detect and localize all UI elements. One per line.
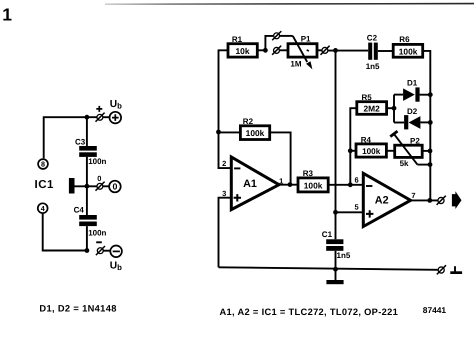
node +Ub junction xyxy=(85,115,90,120)
capacitor C3 xyxy=(79,146,97,151)
wire supply center vertical xyxy=(86,117,88,146)
svg-text:R4: R4 xyxy=(361,136,372,145)
svg-text:100n: 100n xyxy=(88,229,106,238)
resistor R6 xyxy=(393,44,423,57)
svg-text:IC1: IC1 xyxy=(35,179,55,191)
wire to 0 terminal xyxy=(103,185,109,187)
wire R4 to P2 xyxy=(387,150,395,152)
node A2 output rail xyxy=(427,198,432,203)
resistor R3 xyxy=(298,178,328,192)
svg-text:0: 0 xyxy=(112,182,117,192)
svg-text:C2: C2 xyxy=(367,34,378,43)
potentiometer P1 xyxy=(288,44,317,57)
output arrow xyxy=(452,191,462,209)
svg-text:4: 4 xyxy=(41,204,45,213)
terminal +Ub xyxy=(110,112,122,124)
svg-text:R3: R3 xyxy=(303,169,314,178)
terminal 0 xyxy=(109,181,121,193)
wire P2 wiper to rail xyxy=(417,164,430,166)
wire bypass to P1 wiper xyxy=(265,36,273,50)
wire R1 to node xyxy=(257,49,265,51)
wire R2 feedback to output xyxy=(270,132,291,184)
svg-text:A2: A2 xyxy=(375,194,389,206)
node R5R4 rail to pin6 xyxy=(348,182,353,187)
wire connector to wiper line xyxy=(280,35,293,37)
wire P1 to connector xyxy=(317,49,322,51)
node C2 branch xyxy=(333,48,338,53)
node D1 D2 branch xyxy=(392,106,397,111)
node after R1 xyxy=(263,48,268,53)
wire P2 right to rail xyxy=(422,150,430,152)
resistor R5 xyxy=(357,102,387,115)
wire diode bracket xyxy=(393,95,395,123)
capacitor C1 xyxy=(326,239,343,244)
wire bottom rail xyxy=(219,267,438,270)
svg-text:0: 0 xyxy=(97,174,101,183)
wire A2 output xyxy=(410,199,438,201)
diode D1 xyxy=(394,94,403,96)
svg-text:R5: R5 xyxy=(362,93,373,102)
svg-text:D1: D1 xyxy=(407,78,418,87)
connector pin upper xyxy=(274,33,280,39)
wire R5 left rail xyxy=(350,108,357,185)
svg-text:1n5: 1n5 xyxy=(337,251,351,260)
wire C2 node down to pin5 and C1 xyxy=(335,50,337,239)
svg-text:D1, D2 = 1N4148: D1, D2 = 1N4148 xyxy=(39,304,116,314)
svg-text:C1: C1 xyxy=(322,230,333,239)
wire to -Ub terminal xyxy=(104,250,111,252)
svg-text:R1: R1 xyxy=(232,35,243,44)
node C1 bottom rail xyxy=(333,267,338,272)
wire IC1 pin4 to -Ub rail xyxy=(43,214,87,251)
wire R5 right xyxy=(387,107,394,109)
op-amp A1 xyxy=(231,157,279,210)
ground bar left xyxy=(69,178,75,194)
ground right xyxy=(454,266,456,271)
svg-text:C4: C4 xyxy=(74,205,85,214)
svg-text:3: 3 xyxy=(222,189,226,198)
node R2 left xyxy=(216,130,221,135)
wire left rail xyxy=(219,50,231,168)
svg-text:C3: C3 xyxy=(75,137,86,146)
connector pin 0 xyxy=(97,183,103,189)
node -Ub junction xyxy=(85,248,90,253)
connector pin +Ub xyxy=(97,114,103,120)
svg-text:87441: 87441 xyxy=(423,305,447,315)
connector pin -Ub xyxy=(97,248,103,254)
wire R3 to A2 pin6 xyxy=(328,184,363,186)
svg-text:100n: 100n xyxy=(88,157,106,166)
svg-text:A1: A1 xyxy=(243,178,257,190)
connector pin before P1 xyxy=(274,47,280,53)
node R4 left xyxy=(348,148,353,153)
svg-text:2: 2 xyxy=(222,159,226,168)
polarity - above connector xyxy=(96,241,102,243)
svg-text:5k: 5k xyxy=(400,159,409,168)
wire C2 to R6 xyxy=(378,50,393,52)
wire A1 output xyxy=(279,184,299,186)
wire C1 to ground xyxy=(335,251,337,280)
svg-text:100k: 100k xyxy=(362,147,381,156)
svg-text:7: 7 xyxy=(411,191,415,200)
svg-text:R6: R6 xyxy=(399,35,410,44)
svg-text:100k: 100k xyxy=(399,46,418,56)
svg-text:1: 1 xyxy=(2,4,12,24)
svg-text:R2: R2 xyxy=(243,117,254,126)
svg-text:5: 5 xyxy=(355,203,359,212)
node 0 junction xyxy=(85,184,90,189)
wire ground bar to 0 connector xyxy=(75,185,97,187)
capacitor C4 xyxy=(79,215,97,220)
svg-text:Ub: Ub xyxy=(110,99,122,111)
resistor R4 xyxy=(356,144,386,157)
svg-text:1n5: 1n5 xyxy=(366,62,380,71)
wire R2 left xyxy=(219,131,241,133)
terminal -Ub xyxy=(110,246,122,258)
polarity + above connector xyxy=(96,106,102,112)
svg-text:10k: 10k xyxy=(236,46,250,56)
pin 4 of IC1 xyxy=(38,203,48,213)
node A2 pin5 xyxy=(333,210,338,215)
svg-text:100k: 100k xyxy=(246,128,265,138)
connector pin after P1 xyxy=(322,47,328,53)
resistor R2 xyxy=(240,126,269,140)
wire A1 pin3 to bottom rail xyxy=(219,198,231,268)
wire IC1 pin8 to +Ub rail xyxy=(44,117,97,158)
connector pin output xyxy=(438,197,444,203)
svg-text:Ub: Ub xyxy=(110,260,122,272)
capacitor C2 xyxy=(368,43,372,60)
node A1 output xyxy=(288,182,293,187)
resistor R1 xyxy=(228,44,257,57)
wire connector to P1 xyxy=(280,49,288,51)
svg-text:2M2: 2M2 xyxy=(363,104,380,114)
svg-text:A1, A2 = IC1 = TLC272, TL072,: A1, A2 = IC1 = TLC272, TL072, OP-221 xyxy=(220,307,399,317)
wire R4 left xyxy=(350,150,356,152)
svg-text:P2: P2 xyxy=(410,136,420,145)
wire to +Ub connector xyxy=(103,116,109,118)
wire connector to C2 xyxy=(328,50,368,52)
diode D2 xyxy=(394,122,404,124)
pin 8 of IC1 xyxy=(38,159,48,169)
wire pin5 xyxy=(336,211,363,213)
svg-text:8: 8 xyxy=(41,160,45,169)
preset P2 xyxy=(395,145,423,157)
svg-text:6: 6 xyxy=(355,176,359,185)
svg-text:P1: P1 xyxy=(301,35,311,44)
wire right rail xyxy=(423,51,430,201)
connector pin ground xyxy=(438,267,444,273)
ground under C1 xyxy=(326,280,343,284)
svg-text:D2: D2 xyxy=(407,107,418,116)
op-amp A2 xyxy=(363,173,410,226)
svg-text:1M: 1M xyxy=(290,59,301,68)
svg-text:100k: 100k xyxy=(304,180,323,190)
